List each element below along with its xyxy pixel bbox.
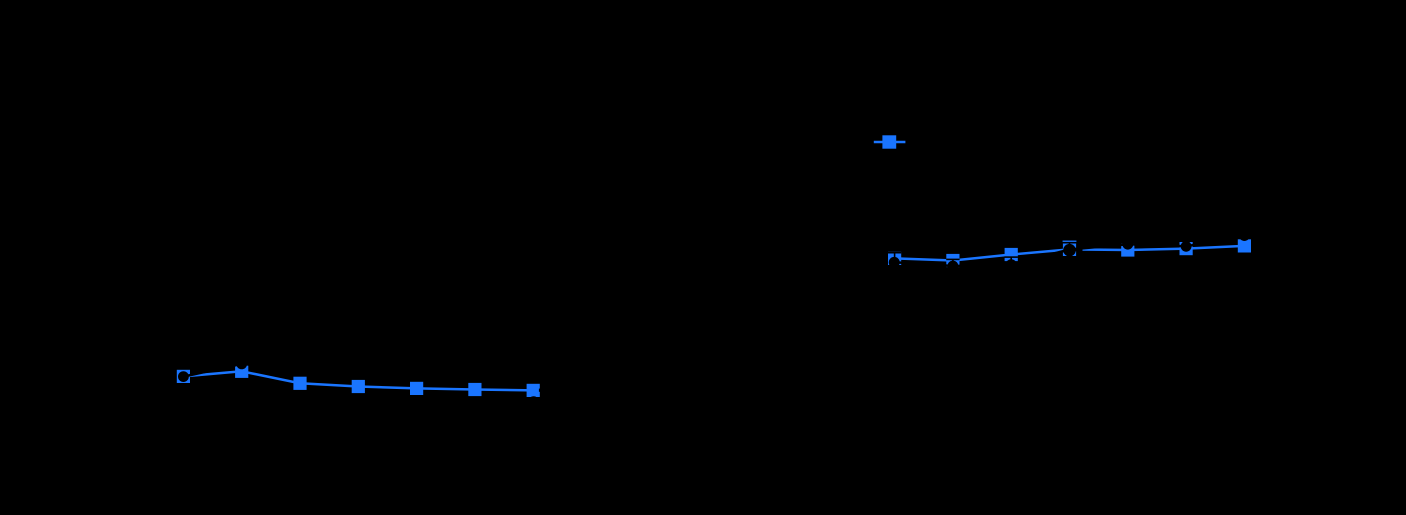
left plot: blue series line xyxy=(183,371,533,390)
left plot: black series line (drawn on top) xyxy=(183,364,533,377)
left plot: black series error bar stems xyxy=(183,359,533,382)
right plot: black series error bar stems xyxy=(895,233,1245,273)
legend: blue square marker xyxy=(882,135,896,148)
left plot: blue square markers xyxy=(177,365,540,397)
right plot: black line overlap erasing blue line right of marker 4 (phantom) xyxy=(1070,248,1083,252)
left plot: blue series error bars xyxy=(183,366,533,395)
right plot: blue error bar cap above marker 4 xyxy=(1063,240,1077,242)
right plot: blue square markers xyxy=(888,239,1251,267)
right plot: black series line (drawn on top) xyxy=(895,236,1245,266)
right plot: black error bar caps xyxy=(888,243,1076,260)
right plot: blue series line xyxy=(895,246,1245,261)
left plot: black bite under last square (phantom circle) xyxy=(528,396,539,407)
right plot: black circle markers xyxy=(889,230,1250,271)
right plot: blue series error bars xyxy=(895,241,1245,266)
left plot: black circle markers xyxy=(178,359,539,383)
legend: blue sample line xyxy=(874,141,906,144)
left plot: black notch on right edge of last square (phantom line) xyxy=(539,389,546,392)
